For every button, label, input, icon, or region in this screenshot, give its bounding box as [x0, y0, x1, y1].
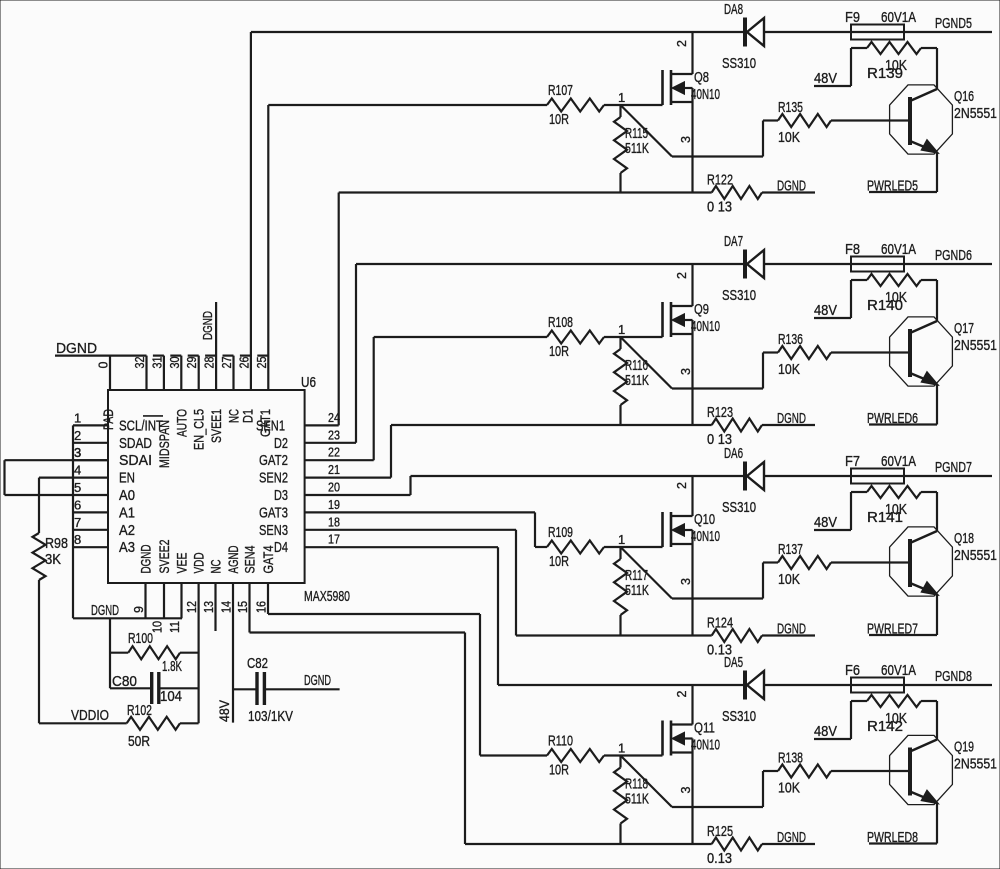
svg-text:1: 1	[618, 322, 625, 337]
svg-text:27: 27	[220, 356, 234, 368]
svg-text:F9: F9	[845, 9, 860, 26]
svg-text:MAX5980: MAX5980	[304, 588, 350, 605]
node DGND bottom bus	[73, 602, 182, 619]
pin 26 stub (D1 riser)	[237, 32, 251, 390]
node PGND6 net label	[935, 247, 972, 264]
svg-text:DGND: DGND	[777, 621, 806, 638]
svg-text:R135: R135	[778, 99, 803, 116]
pin 11 stub	[168, 583, 182, 633]
svg-text:A1: A1	[119, 504, 135, 521]
svg-text:60V1A: 60V1A	[881, 241, 916, 258]
node gate junction pin1 Q11	[618, 741, 625, 756]
svg-text:U6: U6	[301, 374, 316, 391]
svg-text:2: 2	[675, 272, 689, 279]
diode DA6 SS310	[722, 445, 764, 516]
wire gate to LED driver Q11	[621, 756, 764, 808]
node 48V net label Q10	[814, 514, 851, 531]
svg-text:C80: C80	[112, 673, 137, 690]
svg-text:0 13: 0 13	[707, 199, 732, 216]
svg-text:SS310: SS310	[722, 55, 756, 72]
resistor R100 1.8K	[110, 630, 199, 675]
svg-text:1: 1	[618, 90, 625, 105]
svg-text:22: 22	[328, 445, 340, 460]
svg-text:20: 20	[328, 480, 340, 495]
pin 24 stub	[305, 410, 340, 426]
node DGND label at pin 28	[200, 311, 215, 340]
pin 10 stub	[151, 583, 165, 633]
wire D3 riser	[409, 476, 411, 495]
wire gate net Q8	[268, 104, 662, 106]
svg-text:10R: 10R	[549, 762, 569, 779]
pin 0 PAD stub	[97, 356, 111, 390]
fuse F8 60V1A	[845, 241, 916, 272]
svg-text:D4: D4	[274, 539, 288, 556]
node gate junction pin1 Q9	[618, 322, 625, 337]
svg-text:19: 19	[328, 497, 340, 512]
resistor R115 511K	[614, 105, 649, 193]
resistor R122 0.13	[707, 172, 815, 216]
node 48V net label Q8	[814, 70, 851, 87]
svg-text:Q11: Q11	[694, 720, 715, 737]
transistor Q17 2N5551	[890, 280, 997, 425]
svg-text:3: 3	[74, 445, 81, 460]
node PWRLED7 net label	[867, 621, 937, 638]
wire D4 riser	[497, 547, 499, 685]
svg-text:SEN2: SEN2	[259, 470, 288, 487]
wire gate net Q10	[535, 546, 663, 548]
svg-text:511K: 511K	[625, 140, 649, 157]
svg-text:Q18: Q18	[954, 530, 974, 547]
svg-text:R100: R100	[128, 630, 153, 647]
resistor R117 511K	[614, 547, 649, 636]
wire D2 riser	[355, 264, 357, 443]
IC left pin names	[119, 416, 163, 556]
svg-text:50R: 50R	[128, 733, 150, 750]
pin 31 stub	[150, 356, 164, 390]
resistor R123 0.13	[707, 404, 815, 448]
svg-text:R102: R102	[127, 702, 152, 719]
node DGND label at C82	[304, 672, 331, 689]
pin 23 stub	[305, 427, 356, 443]
svg-text:511K: 511K	[625, 372, 649, 389]
svg-text:R107: R107	[548, 82, 573, 99]
svg-text:PWRLED8: PWRLED8	[867, 829, 918, 846]
wire SEN2 riser	[390, 425, 392, 478]
resistor R135 10K	[763, 99, 908, 146]
svg-text:GAT2: GAT2	[259, 452, 288, 469]
svg-text:PWRLED7: PWRLED7	[867, 621, 918, 638]
svg-text:103/1KV: 103/1KV	[248, 708, 293, 725]
svg-text:A2: A2	[119, 522, 135, 539]
svg-text:SS310: SS310	[722, 499, 756, 516]
svg-text:1: 1	[618, 532, 625, 547]
svg-text:PGND8: PGND8	[935, 668, 972, 685]
transistor Q11 40N10	[663, 685, 721, 844]
fuse F9 60V1A	[845, 9, 916, 40]
svg-text:13: 13	[202, 601, 216, 613]
svg-text:R108: R108	[548, 314, 573, 331]
svg-text:PAD: PAD	[100, 409, 116, 430]
svg-text:31: 31	[150, 356, 164, 368]
svg-text:D3: D3	[274, 487, 288, 504]
node PGND8 net label	[935, 668, 972, 685]
svg-text:15: 15	[236, 601, 250, 613]
svg-text:40N10: 40N10	[691, 318, 720, 335]
resistor R102 50R	[39, 702, 199, 750]
wire gate to LED driver Q8	[621, 105, 764, 157]
svg-text:VEE: VEE	[174, 553, 190, 574]
svg-text:4: 4	[74, 463, 81, 478]
svg-text:2N5551: 2N5551	[954, 547, 997, 564]
svg-text:2: 2	[675, 482, 689, 489]
svg-text:R109: R109	[548, 524, 573, 541]
svg-text:AUTO: AUTO	[173, 409, 189, 437]
resistor R142 10K	[851, 695, 937, 739]
svg-text:SS310: SS310	[722, 708, 756, 725]
wire left bus (pins 1,2,3,6,7,8 to DGND)	[72, 425, 74, 618]
node PWRLED6 net label	[867, 410, 937, 427]
node PWRLED8 net label	[867, 829, 937, 846]
pin 25 stub (GAT1 riser)	[255, 105, 269, 390]
node DGND label Q8 channel	[777, 178, 806, 195]
transistor Q16 2N5551	[890, 48, 997, 192]
svg-text:0: 0	[97, 362, 111, 369]
svg-text:8: 8	[74, 532, 81, 547]
pin 16 stub (GAT4)	[255, 583, 269, 614]
wire D net Q9	[356, 263, 992, 265]
svg-text:60V1A: 60V1A	[881, 453, 916, 470]
svg-text:PGND7: PGND7	[935, 459, 972, 476]
resistor R116 511K	[614, 337, 649, 425]
svg-text:1: 1	[74, 410, 81, 425]
svg-text:9: 9	[132, 606, 146, 613]
svg-text:30: 30	[168, 356, 182, 368]
wire gate to LED driver Q10	[621, 547, 764, 599]
node gate junction pin1 Q8	[618, 90, 625, 105]
resistor R141 10K	[851, 486, 937, 530]
node PWRLED5 net label	[867, 178, 937, 195]
svg-text:25: 25	[255, 356, 269, 368]
svg-text:PWRLED6: PWRLED6	[867, 410, 918, 427]
node VDDIO label	[71, 707, 109, 724]
svg-text:A0: A0	[119, 487, 135, 504]
transistor Q18 2N5551	[890, 492, 997, 635]
wire sense net Q9	[391, 424, 712, 426]
svg-text:48V: 48V	[814, 514, 837, 531]
transistor Q10 40N10	[663, 476, 721, 636]
svg-text:DA8: DA8	[724, 1, 743, 18]
wire SDAI/A0 left loop	[5, 445, 109, 495]
wire D net Q8	[251, 31, 992, 33]
svg-text:R142: R142	[867, 718, 903, 735]
resistor R107 10R	[547, 82, 604, 128]
svg-text:C82: C82	[247, 655, 268, 672]
svg-text:2N5551: 2N5551	[954, 105, 997, 122]
svg-text:NC: NC	[208, 560, 224, 574]
svg-text:DA7: DA7	[724, 233, 743, 250]
svg-text:Q9: Q9	[694, 301, 709, 318]
node DGND top-left net label	[55, 340, 147, 357]
pin 19 stub	[305, 497, 535, 513]
pin 15 stub (SEN4)	[236, 583, 250, 633]
IC bottom pin names	[138, 539, 277, 573]
svg-text:11: 11	[168, 621, 182, 633]
svg-text:3: 3	[679, 787, 693, 794]
svg-text:PGND6: PGND6	[935, 247, 972, 264]
svg-text:48V: 48V	[814, 70, 837, 87]
node DGND label Q9 channel	[777, 410, 806, 427]
wire sense net Q11	[465, 843, 712, 845]
capacitor C80 104	[110, 672, 199, 705]
svg-text:14: 14	[220, 601, 234, 613]
svg-text:0.13: 0.13	[707, 850, 732, 867]
svg-text:60V1A: 60V1A	[881, 9, 916, 26]
pin 4 EN wire	[39, 463, 108, 533]
pin 14 stub (48V net)	[220, 583, 234, 723]
resistor R138 10K	[763, 750, 908, 797]
svg-text:511K: 511K	[625, 791, 649, 808]
svg-text:3: 3	[679, 578, 693, 585]
svg-text:26: 26	[237, 356, 251, 368]
svg-text:104: 104	[160, 688, 182, 705]
svg-text:R136: R136	[778, 331, 803, 348]
svg-text:Q16: Q16	[954, 88, 974, 105]
svg-text:R137: R137	[778, 541, 803, 558]
wire GAT2 riser	[373, 337, 375, 460]
node PGND5 net label	[935, 15, 972, 32]
resistor R118 511K	[614, 756, 649, 845]
svg-text:F8: F8	[845, 241, 860, 258]
resistor R139 10K	[851, 42, 937, 86]
svg-text:2: 2	[675, 40, 689, 47]
svg-text:17: 17	[328, 532, 340, 547]
svg-text:32: 32	[133, 356, 147, 368]
svg-text:DGND: DGND	[777, 178, 806, 195]
svg-text:23: 23	[328, 427, 340, 442]
IC top pin names	[100, 409, 273, 468]
capacitor C82 103/1KV	[233, 655, 340, 725]
svg-text:GAT4: GAT4	[260, 545, 276, 573]
svg-text:F7: F7	[845, 453, 860, 470]
svg-text:48V: 48V	[217, 700, 232, 722]
svg-text:SEN4: SEN4	[242, 545, 258, 573]
svg-text:R98: R98	[45, 535, 68, 552]
pin 3 stub	[73, 445, 108, 460]
wire SEN1 riser	[338, 193, 340, 426]
svg-text:10R: 10R	[549, 343, 569, 360]
wire gate to LED driver Q9	[621, 337, 764, 389]
pin 6 stub	[73, 497, 108, 512]
svg-text:DGND: DGND	[304, 672, 331, 689]
wire GAT3 riser	[534, 512, 536, 547]
svg-text:16: 16	[255, 601, 269, 613]
op-amp U6 MAX5980 IC body	[108, 374, 350, 605]
svg-text:R141: R141	[867, 509, 903, 526]
svg-text:1.8K: 1.8K	[162, 658, 182, 675]
diode DA5 SS310	[722, 654, 764, 725]
pin 13 stub	[202, 583, 216, 631]
resistor R136 10K	[763, 331, 908, 378]
svg-text:PGND5: PGND5	[935, 15, 972, 32]
node 48V net label Q9	[814, 302, 851, 319]
svg-text:28: 28	[203, 356, 217, 368]
wire gate net Q9	[374, 336, 663, 338]
svg-text:SS310: SS310	[722, 287, 756, 304]
node DGND label Q10 channel	[777, 621, 806, 638]
svg-text:DA6: DA6	[724, 445, 743, 462]
pin 21 stub	[305, 462, 391, 478]
node gate junction pin1 Q10	[618, 532, 625, 547]
svg-text:10R: 10R	[549, 553, 569, 570]
node DGND label Q11 channel	[777, 829, 806, 846]
svg-text:DGND: DGND	[138, 545, 154, 574]
svg-text:DGND: DGND	[777, 410, 806, 427]
svg-text:29: 29	[185, 356, 199, 368]
svg-text:R124: R124	[707, 615, 733, 632]
IC right pin names	[256, 417, 288, 556]
svg-text:D1: D1	[239, 409, 255, 423]
svg-text:R122: R122	[707, 172, 733, 189]
svg-text:Q17: Q17	[954, 320, 974, 337]
wire D net Q10	[411, 475, 993, 477]
svg-text:2: 2	[74, 428, 81, 443]
pin 29 stub	[185, 356, 199, 390]
pin 8 stub	[73, 532, 108, 547]
svg-text:VDDIO: VDDIO	[71, 707, 109, 724]
pin 22 stub	[305, 445, 374, 461]
svg-text:Q10: Q10	[694, 511, 715, 528]
resistor R124 0.13	[707, 615, 815, 659]
wire GAT4 route	[268, 614, 480, 756]
wire D net Q11	[498, 684, 992, 686]
pin 28 stub / wire to DGND	[203, 302, 217, 390]
svg-text:R138: R138	[778, 750, 803, 767]
svg-text:48V: 48V	[814, 302, 837, 319]
svg-text:D2: D2	[274, 435, 288, 452]
svg-text:SEN3: SEN3	[259, 522, 288, 539]
svg-text:GAT3: GAT3	[259, 504, 288, 521]
resistor R108 10R	[547, 314, 604, 360]
transistor Q8 40N10	[663, 32, 721, 193]
transistor Q19 2N5551	[890, 701, 997, 844]
svg-text:10K: 10K	[778, 129, 800, 146]
svg-text:2N5551: 2N5551	[954, 337, 997, 354]
pin 1 stub	[73, 410, 108, 425]
svg-text:R123: R123	[707, 404, 733, 421]
pin 12 stub (VDD riser)	[185, 583, 199, 723]
diode DA8 SS310	[722, 1, 764, 72]
svg-text:DGND: DGND	[91, 602, 119, 619]
svg-text:60V1A: 60V1A	[881, 662, 916, 679]
svg-text:2N5551: 2N5551	[954, 756, 997, 773]
svg-text:40N10: 40N10	[691, 528, 720, 545]
wire gate net Q11	[480, 754, 663, 756]
svg-text:DGND: DGND	[777, 829, 806, 846]
svg-text:40N10: 40N10	[691, 737, 720, 754]
svg-text:DGND: DGND	[200, 311, 215, 340]
pin 20 stub	[305, 480, 411, 496]
svg-text:SDAI: SDAI	[119, 452, 152, 469]
svg-text:F6: F6	[845, 662, 860, 679]
svg-text:3: 3	[679, 136, 693, 143]
svg-text:5: 5	[74, 480, 81, 495]
svg-text:511K: 511K	[625, 582, 649, 599]
svg-text:6: 6	[74, 497, 81, 512]
svg-text:DGND: DGND	[56, 340, 97, 357]
svg-text:GAT1: GAT1	[257, 409, 273, 437]
pin 18 stub	[305, 514, 516, 530]
svg-text:EN_CL5: EN_CL5	[191, 409, 207, 450]
pin 2 stub	[73, 428, 108, 443]
wire R98 to VDDIO	[38, 580, 40, 723]
svg-text:3K: 3K	[45, 551, 61, 568]
svg-text:R110: R110	[548, 733, 573, 750]
wire sense net Q10	[516, 634, 712, 636]
pin 32 stub	[133, 356, 147, 390]
wire SEN3 riser	[515, 530, 517, 636]
svg-text:VDD: VDD	[191, 553, 207, 574]
node PGND7 net label	[935, 459, 972, 476]
transistor Q9 40N10	[663, 264, 721, 425]
svg-text:EN: EN	[119, 470, 135, 487]
node 48V label at pin 14	[217, 700, 232, 722]
svg-text:R140: R140	[867, 297, 903, 314]
fuse F6 60V1A	[845, 662, 916, 693]
svg-text:1: 1	[618, 741, 625, 756]
svg-text:7: 7	[74, 515, 81, 530]
diode DA7 SS310	[722, 233, 764, 304]
svg-text:18: 18	[328, 514, 340, 529]
svg-text:AGND: AGND	[225, 546, 241, 574]
svg-text:Q19: Q19	[954, 739, 974, 756]
pin 17 stub	[305, 532, 498, 548]
resistor R137 10K	[763, 541, 908, 588]
pin 30 stub	[168, 356, 182, 390]
svg-text:A3: A3	[119, 539, 135, 556]
svg-text:2: 2	[675, 691, 689, 698]
fuse F7 60V1A	[845, 453, 916, 484]
pin 7 stub	[73, 515, 108, 530]
svg-text:40N10: 40N10	[691, 86, 720, 103]
svg-text:12: 12	[185, 601, 199, 613]
svg-text:SVEE2: SVEE2	[156, 539, 172, 573]
svg-text:Q8: Q8	[694, 69, 709, 86]
resistor R125 0.13	[707, 823, 815, 867]
svg-text:MIDSPAN: MIDSPAN	[156, 420, 172, 468]
svg-text:3: 3	[679, 368, 693, 375]
resistor R140 10K	[851, 274, 937, 318]
wire sense net Q8	[339, 191, 712, 193]
svg-text:48V: 48V	[814, 723, 837, 740]
svg-text:10K: 10K	[778, 780, 800, 797]
pin 27 stub	[220, 356, 234, 390]
node 48V net label Q11	[814, 723, 851, 740]
svg-text:SDAD: SDAD	[119, 435, 152, 452]
svg-text:DA5: DA5	[724, 654, 743, 671]
svg-text:21: 21	[328, 462, 340, 477]
resistor R110 10R	[547, 733, 604, 779]
wire DGND drop to R100/C80	[109, 618, 111, 688]
resistor R98 3K	[33, 533, 69, 580]
svg-text:PWRLED5: PWRLED5	[867, 178, 918, 195]
resistor R109 10R	[547, 524, 604, 570]
svg-text:R125: R125	[707, 823, 733, 840]
pin 9 stub	[132, 583, 146, 618]
svg-text:10R: 10R	[549, 111, 569, 128]
svg-text:R139: R139	[867, 65, 903, 82]
svg-text:10K: 10K	[778, 571, 800, 588]
svg-text:10K: 10K	[778, 361, 800, 378]
